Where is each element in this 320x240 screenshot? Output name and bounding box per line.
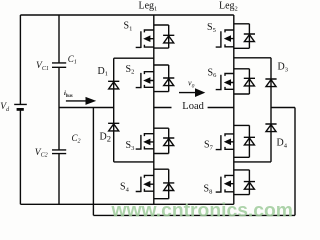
svg-text:Load: Load bbox=[182, 101, 204, 112]
svg-text:D2: D2 bbox=[100, 132, 111, 144]
svg-text:www.cntronics.com: www.cntronics.com bbox=[111, 201, 293, 220]
